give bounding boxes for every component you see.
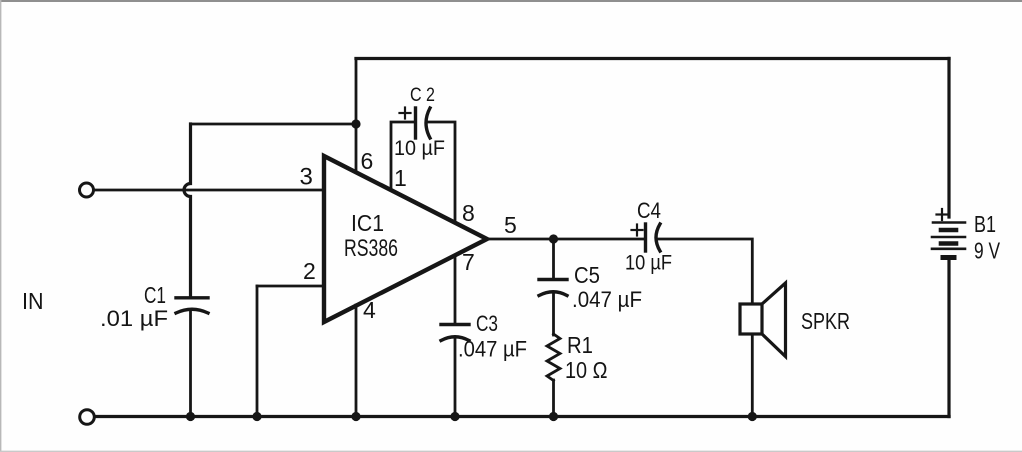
svg-text:C3: C3 — [476, 311, 498, 336]
wire: pin 2 to ground — [256, 286, 259, 416]
svg-text:B1: B1 — [974, 211, 996, 237]
svg-text:SPKR: SPKR — [801, 308, 850, 334]
svg-text:RS386: RS386 — [344, 235, 398, 262]
wire: C1 upper lead with hop over input wire — [184, 124, 191, 296]
svg-text:C5: C5 — [574, 262, 600, 288]
svg-text:IN: IN — [22, 288, 44, 314]
wire: C3 to ground — [454, 339, 457, 416]
svg-text:7: 7 — [462, 249, 475, 275]
wire: bypass branch horizontal — [191, 123, 357, 126]
wire: pin 2 horizontal — [257, 285, 322, 288]
node: output junction — [549, 234, 558, 243]
node: C1 ground junction — [186, 412, 195, 421]
node: pin 4 ground junction — [351, 412, 360, 421]
wire: output to C5 — [552, 239, 555, 278]
svg-text:.01 µF: .01 µF — [100, 306, 168, 331]
wire: pin 5 output — [487, 238, 645, 241]
scan border left — [0, 0, 2, 452]
speaker SPKR — [740, 283, 786, 357]
wire: ground bottom rail — [95, 415, 950, 418]
svg-text:IC1: IC1 — [351, 210, 384, 236]
wire: C1 to ground — [189, 311, 192, 416]
svg-text:R1: R1 — [567, 332, 593, 358]
capacitor C3 — [441, 325, 469, 341]
label: C2 plus sign — [400, 108, 411, 119]
wire: pin 4 drop — [355, 305, 358, 416]
node: pin 2 ground junction — [252, 412, 261, 421]
node: C3 ground junction — [450, 412, 459, 421]
label: battery plus sign — [937, 209, 948, 220]
svg-text:2: 2 — [303, 258, 316, 284]
node: V+ junction — [351, 119, 360, 128]
svg-text:6: 6 — [361, 148, 374, 174]
capacitor C5 — [539, 280, 567, 296]
wire: battery negative lead — [947, 259, 950, 417]
wire: C5 to R1 — [552, 294, 555, 335]
svg-text:.047 µF: .047 µF — [458, 337, 527, 362]
scan border bottom — [0, 450, 1022, 452]
wire: input to pin 3 — [94, 189, 322, 192]
terminal: input top — [80, 183, 94, 197]
svg-text:C 2: C 2 — [410, 85, 435, 106]
wire: C4 to speaker — [659, 239, 753, 304]
resistor R1 — [547, 334, 560, 381]
wire: R1 to ground — [552, 380, 555, 416]
capacitor C2 — [416, 108, 431, 138]
svg-text:1: 1 — [394, 165, 407, 191]
wire: V+ top rail — [356, 57, 949, 60]
capacitor C1 — [176, 298, 208, 313]
svg-text:10 µF: 10 µF — [394, 137, 445, 160]
scan border top — [0, 0, 1022, 2]
svg-text:C1: C1 — [144, 282, 166, 308]
svg-text:C4: C4 — [637, 198, 661, 223]
wire: pin 6 drop from rail — [355, 59, 358, 173]
svg-text:5: 5 — [504, 212, 517, 238]
op-amp IC1 triangle — [324, 156, 487, 322]
label: C4 plus sign — [632, 225, 643, 236]
wire: battery B1 positive lead — [947, 59, 950, 218]
wire: pin 1 to C2 left lead — [391, 122, 413, 190]
node: R1 ground junction — [549, 412, 558, 421]
capacitor C4 — [646, 224, 661, 251]
svg-text:4: 4 — [363, 297, 376, 323]
svg-text:9 V: 9 V — [974, 238, 1000, 264]
svg-text:10 µF: 10 µF — [625, 252, 672, 275]
svg-text:10 Ω: 10 Ω — [565, 357, 608, 383]
wire: C2 right lead to pin 8 — [429, 122, 456, 222]
svg-text:8: 8 — [462, 200, 475, 226]
node: speaker ground junction — [748, 412, 757, 421]
battery B1 — [932, 223, 965, 258]
svg-text:3: 3 — [300, 164, 313, 191]
svg-text:.047 µF: .047 µF — [572, 287, 642, 312]
wire: pin 7 drop — [454, 255, 457, 322]
wire: speaker to ground — [751, 334, 754, 416]
terminal: input bottom — [80, 410, 95, 425]
